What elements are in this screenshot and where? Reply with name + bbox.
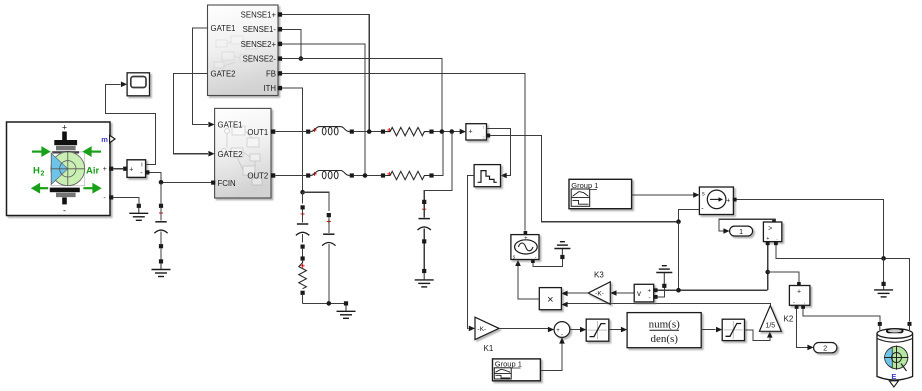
wire saturation1 to transfer fcn [609,329,621,331]
signal builder Group 1 (lower) [493,359,541,381]
gain K3 (flipped) [588,282,610,304]
ground below CD [423,273,425,279]
wire OUT2 to inductor L2 [275,175,306,177]
inductor L2 [306,173,310,177]
node VM1 branch [765,270,770,275]
svg-text:GATE2: GATE2 [218,150,243,159]
arrowhead into scope [121,82,127,88]
node cap C bottom [327,301,332,306]
svg-text:H: H [33,166,40,177]
wire VM1 right port to battery + rail [776,245,910,321]
wire VM2 out to outport 2 [797,309,808,348]
node FCIN junction [159,180,164,185]
ground at caps B,C [344,301,348,305]
controller subsystem U1 (gate driver / sense) [208,5,283,96]
svg-text:×: × [547,294,553,306]
wire SENSE2- [282,59,442,130]
resistor R1 [381,130,385,134]
svg-text:FCIN: FCIN [218,179,236,188]
svg-text:-K-: -K- [595,291,604,298]
svg-text:+: + [766,236,769,242]
saturation block 2 [722,319,744,340]
svg-text:Group 1: Group 1 [495,360,522,369]
svg-text:K3: K3 [594,271,604,280]
svg-text:OUT2: OUT2 [247,172,268,181]
svg-text:GATE1: GATE1 [218,121,243,130]
svg-text:ITH: ITH [263,84,276,93]
wire product out to controlled voltage source [518,266,539,300]
wire VM2 right port to battery - [803,309,880,322]
wire R1 to sum block [434,131,460,133]
gain K2 (1/5) [759,306,781,332]
wire ITH [282,88,302,191]
wire Group1 upper to current source [632,194,694,196]
svg-text:SENSE1+: SENSE1+ [241,10,277,19]
wire VM0 - to ground [658,288,665,297]
wire node to capacitor CA [160,182,162,203]
svg-text:2: 2 [41,171,45,178]
wire VM1 out to outport 1 [719,219,774,231]
series measurement block S1 [466,124,490,140]
node SENSE1+ junction [367,129,372,134]
ground below CA [160,264,162,270]
ground at VM0 (flipped) [662,284,666,288]
resistor R2 [381,173,385,177]
node right rail [881,256,886,261]
wire staircase out down to K1 [467,176,474,329]
wire Group1 lower to sum [540,344,562,371]
svg-text:1: 1 [739,227,743,236]
node ITH/cap junction [300,190,305,195]
wire cvs - to ground [533,259,563,267]
node SENSE- join [299,56,304,61]
capacitor CA [159,204,163,208]
transfer function num(s)/den(s) [627,313,701,348]
current measurement block [123,160,149,178]
svg-text:+: + [726,197,730,204]
svg-text:num(s): num(s) [649,318,681,330]
ground at right rail [882,282,886,286]
capacitor CC [327,213,331,217]
wire current measurement - to FCIN node [150,172,213,182]
svg-text:OUT1: OUT1 [247,128,268,137]
wire SENSE1- [282,29,301,58]
wire OUT1 to inductor L1 [275,131,306,133]
node at long rail [676,219,681,224]
wire rail to ground [883,258,885,281]
svg-text:s: s [702,191,705,197]
svg-text:+: + [129,166,133,173]
controlled voltage source [511,231,539,263]
outport 1 [730,226,753,236]
wire transfer fcn to saturation2 [701,329,715,331]
svg-text:K1: K1 [484,344,494,353]
wire fuel cell - to ground [113,197,139,203]
staircase source block [474,165,500,187]
inductor L1 [306,130,310,134]
scope [127,73,149,96]
wire fuel cell + to current measurement [113,168,123,170]
svg-text:-: - [63,206,66,216]
wire K2 out to product [568,304,771,306]
svg-text:E: E [891,372,896,381]
wire SENSE2+ [282,44,365,174]
wire current source + to right rail [737,200,884,259]
gain K1 [475,317,499,339]
wire FB [282,73,525,230]
node row1 a [440,129,445,134]
svg-text:-: - [561,331,563,338]
svg-text:GATE2: GATE2 [211,69,236,78]
svg-text:>: > [768,226,772,233]
sum junction circle [554,322,570,339]
wire branch to VM2 top [768,272,799,282]
arrowhead into S1 [460,129,466,135]
wire S1 top out to staircase block [487,129,511,176]
svg-text:FB: FB [266,69,276,78]
node SENSE2+ junction [363,173,368,178]
svg-text:K2: K2 [784,315,794,324]
wire row1 to output cap branch [424,132,452,200]
svg-text:+: + [797,289,801,296]
svg-text:GATE1: GATE1 [211,24,236,33]
wire S1 bottom out long [490,136,678,222]
svg-text:SENSE1-: SENSE1- [243,25,277,34]
battery / storage cell [877,322,913,387]
svg-text:-: - [793,299,795,305]
wire node to cap CC [303,192,329,211]
svg-text:v: v [637,289,641,298]
ground at fuel cell - [137,204,141,208]
power stage subsystem U2 [208,108,275,198]
wire SENSE1+ [282,15,369,131]
wire sum to saturation1 [570,329,580,331]
wire K3 to product [568,292,589,294]
resistor RB [301,264,305,268]
voltage measurement VM0 [634,284,657,302]
node row1 b [450,129,455,134]
saturation block 1 [586,319,609,341]
wire K1 to sum [499,327,548,329]
svg-text:1/5: 1/5 [765,323,775,330]
svg-text:den(s): den(s) [650,333,678,345]
fuel cell stack block [7,122,116,216]
wire L1 to R1 [354,131,381,133]
svg-text:-: - [649,296,651,302]
ground at cvs (flipped) [560,255,564,259]
svg-text:-K-: -K- [478,326,487,333]
wire bottom of caps B,C to ground [303,302,346,304]
wire rail down to measure net [678,222,680,291]
controlled current source [699,187,736,215]
svg-text:SENSE2+: SENSE2+ [241,40,277,49]
wire v measurement to K3 [616,292,634,294]
svg-text:+: + [556,328,560,334]
svg-text:2: 2 [823,344,827,353]
svg-text:m: m [101,135,108,144]
svg-text:+: + [469,128,473,135]
node measure net [676,288,681,293]
wire - input of current source [679,209,700,221]
svg-text:+: + [648,288,652,294]
wire GATE1 U1 to U2 [193,28,208,125]
svg-text:SENSE2-: SENSE2- [243,55,277,64]
wire R2 up to row1 [434,132,443,176]
capacitor CB [302,192,304,203]
svg-text:+: + [103,166,107,173]
wire GATE2 U1 to U2 [174,73,208,153]
wire VM1 left port down [767,245,769,290]
svg-text:+: + [524,235,527,241]
voltage measurement VM1 (rotated) [763,219,781,246]
signal builder Group 1 (upper) [569,179,632,208]
wire current measurement i to scope [106,84,156,164]
svg-text:i: i [141,163,142,169]
wire L2 to R2 [354,175,381,177]
capacitor CD [422,200,426,204]
voltage measurement VM2 (rotated) [789,282,810,309]
svg-text:Air: Air [86,166,100,177]
wire saturation2 to gain K2 [745,330,770,341]
wire VM0 + long measure net [658,289,768,291]
svg-text:+: + [62,123,67,133]
product block (flipped) [539,288,561,310]
outport 2 [814,343,837,353]
